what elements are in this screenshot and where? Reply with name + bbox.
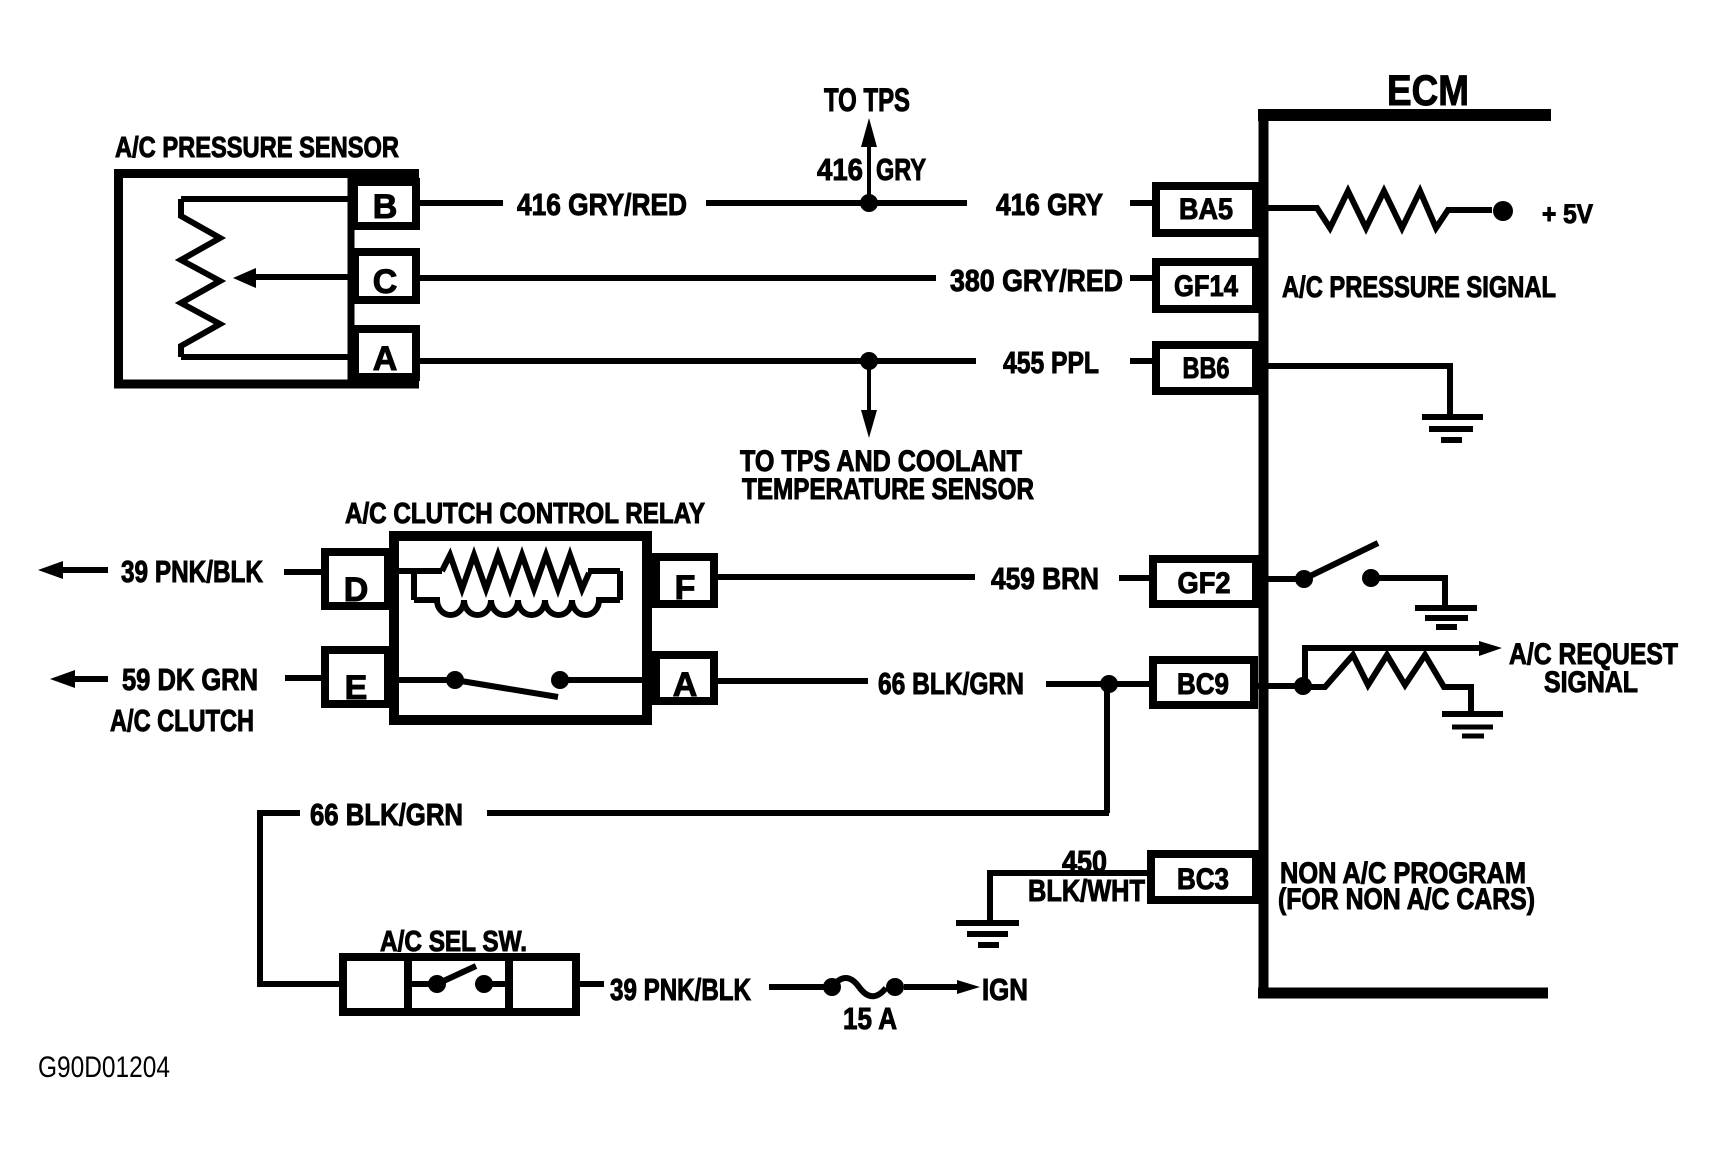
wire from BB6 to ground xyxy=(1263,366,1450,415)
wire stub into GF2 xyxy=(1119,575,1150,581)
wire stub into GF14 xyxy=(1130,275,1153,281)
svg-text:C: C xyxy=(373,263,398,301)
svg-text:A/C CLUTCH: A/C CLUTCH xyxy=(110,703,254,738)
switch inside ECM after GF2 xyxy=(1263,576,1304,582)
wire 455 PPL from pin A xyxy=(420,358,976,364)
arrow to IGN xyxy=(904,984,960,990)
ground below BB6 xyxy=(1422,417,1483,440)
wire 450 BLK/WHT into BC3 xyxy=(990,873,1151,920)
svg-text:A/C CLUTCH CONTROL RELAY: A/C CLUTCH CONTROL RELAY xyxy=(345,498,705,530)
svg-text:F: F xyxy=(675,569,696,607)
wire into BC9 xyxy=(1046,681,1153,687)
relay switch contacts xyxy=(396,677,455,683)
wire up and arrow A/C REQUEST xyxy=(1305,648,1480,686)
svg-text:GRY: GRY xyxy=(876,152,926,187)
wire stub into BA5 xyxy=(1130,200,1153,206)
svg-text:39 PNK/BLK: 39 PNK/BLK xyxy=(610,972,751,1007)
wire into pin D xyxy=(284,569,322,575)
svg-text:+ 5V: + 5V xyxy=(1542,199,1593,229)
wire 416 GRY up to TPS xyxy=(867,145,871,203)
connector GF2 xyxy=(1153,559,1256,604)
ECM outline xyxy=(1258,110,1551,998)
svg-text:BA5: BA5 xyxy=(1179,193,1233,226)
svg-text:416 GRY: 416 GRY xyxy=(996,187,1103,222)
relay pin A xyxy=(656,655,714,701)
svg-text:B: B xyxy=(373,188,398,226)
svg-text:15 A: 15 A xyxy=(843,1001,897,1036)
pin C xyxy=(355,252,416,300)
svg-text:66 BLK/GRN: 66 BLK/GRN xyxy=(878,666,1024,701)
ground after BC9 resistor xyxy=(1442,714,1503,736)
resistor to +5V xyxy=(1263,191,1492,228)
ground after GF2 switch xyxy=(1415,608,1477,627)
connector BC9 xyxy=(1153,660,1254,705)
junction dot on 455 wire xyxy=(860,352,878,370)
wire stub right of switch xyxy=(580,981,604,987)
A/C pressure sensor box xyxy=(114,169,419,388)
svg-text:SIGNAL: SIGNAL xyxy=(1544,666,1638,699)
svg-text:BC9: BC9 xyxy=(1177,668,1229,701)
svg-text:416: 416 xyxy=(817,152,863,187)
relay box xyxy=(394,536,647,720)
pin A xyxy=(355,329,416,377)
svg-text:GF14: GF14 xyxy=(1174,270,1238,303)
svg-text:455 PPL: 455 PPL xyxy=(1003,345,1099,380)
svg-text:TO TPS: TO TPS xyxy=(824,82,910,118)
svg-text:459 BRN: 459 BRN xyxy=(991,561,1099,596)
wiper arrow to pin C xyxy=(252,274,351,280)
long wire 66 BLK/GRN to lower left xyxy=(487,810,1109,816)
wire 459 BRN from pin F xyxy=(718,574,975,580)
svg-text:IGN: IGN xyxy=(982,972,1028,1007)
svg-text:D: D xyxy=(344,571,369,609)
ground for 450 BLK/WHT xyxy=(956,923,1019,945)
fuse 15 A xyxy=(823,978,841,996)
wire 416 GRY/RED from pin B xyxy=(420,200,503,206)
svg-text:G90D01204: G90D01204 xyxy=(38,1051,170,1084)
svg-text:A: A xyxy=(373,340,398,378)
wire stub into BB6 xyxy=(1130,358,1153,364)
svg-text:TEMPERATURE SENSOR: TEMPERATURE SENSOR xyxy=(742,473,1034,506)
svg-text:ECM: ECM xyxy=(1387,67,1469,115)
wire segment to 416 GRY label xyxy=(706,200,967,206)
connector BA5 xyxy=(1156,186,1256,233)
arrow 39 PNK/BLK left xyxy=(60,567,108,573)
svg-text:E: E xyxy=(345,669,368,707)
svg-text:A: A xyxy=(673,666,698,704)
connector BC3 xyxy=(1151,854,1256,900)
resistor after BC9 to ground xyxy=(1303,655,1471,713)
relay pin D xyxy=(325,552,388,606)
junction dot on 416 wire xyxy=(860,194,878,212)
svg-text:(FOR NON A/C CARS): (FOR NON A/C CARS) xyxy=(1278,883,1535,916)
svg-text:66 BLK/GRN: 66 BLK/GRN xyxy=(310,797,463,832)
wire down to TPS and coolant sensor xyxy=(867,361,871,413)
svg-text:39 PNK/BLK: 39 PNK/BLK xyxy=(121,554,263,589)
wire 66 BLK/GRN from pin A xyxy=(718,678,868,684)
svg-text:BC3: BC3 xyxy=(1177,863,1229,896)
svg-text:A/C PRESSURE SENSOR: A/C PRESSURE SENSOR xyxy=(115,132,399,164)
node at BC9 output xyxy=(1258,683,1303,689)
A/C select switch box xyxy=(343,957,576,1012)
wire to fuse xyxy=(769,984,832,990)
pin B xyxy=(354,182,416,226)
wire 66 BLK/GRN down from junction xyxy=(1104,684,1110,813)
relay coil xyxy=(396,555,620,615)
wire corner to A/C SEL SW xyxy=(260,813,342,984)
relay pin F xyxy=(656,557,714,604)
svg-text:A/C PRESSURE SIGNAL: A/C PRESSURE SIGNAL xyxy=(1282,271,1556,304)
wire into pin E xyxy=(285,675,322,681)
select switch contacts xyxy=(410,981,437,987)
junction dot below BC9 wire xyxy=(1100,675,1118,693)
svg-text:59 DK GRN: 59 DK GRN xyxy=(122,662,258,697)
svg-text:416 GRY/RED: 416 GRY/RED xyxy=(517,187,687,222)
arrow 59 DK GRN left xyxy=(72,676,108,682)
svg-text:BLK/WHT: BLK/WHT xyxy=(1028,873,1145,908)
svg-text:380 GRY/RED: 380 GRY/RED xyxy=(950,263,1123,298)
potentiometer resistor inside sensor xyxy=(181,199,351,357)
connector GF14 xyxy=(1156,262,1256,309)
wire 380 GRY/RED from pin C xyxy=(416,275,936,281)
node +5V xyxy=(1493,201,1513,221)
svg-text:BB6: BB6 xyxy=(1183,352,1230,385)
connector BB6 xyxy=(1156,345,1256,391)
svg-text:GF2: GF2 xyxy=(1178,567,1231,600)
relay pin E xyxy=(325,650,388,704)
